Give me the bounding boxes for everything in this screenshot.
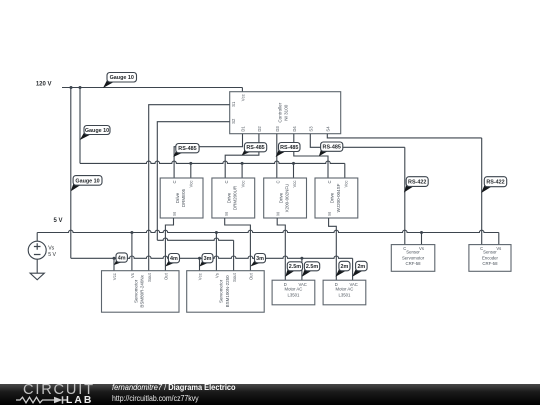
wire drive4 M to motor2 D — [329, 218, 337, 280]
svg-text:Gauge 10: Gauge 10 — [75, 178, 99, 184]
svg-text:Out: Out — [249, 272, 254, 280]
svg-text:M: M — [276, 212, 281, 216]
svg-text:Vs: Vs — [496, 246, 501, 251]
wire B gauge feeder — [79, 88, 81, 164]
svg-text:RS-422: RS-422 — [486, 180, 504, 186]
svg-text:Vcc: Vcc — [292, 181, 297, 188]
svg-text:S4: S4 — [326, 126, 331, 132]
svg-text:Encoder: Encoder — [482, 255, 499, 260]
svg-text:S3: S3 — [309, 126, 314, 132]
flag Gauge 10 #1 — [103, 73, 137, 89]
motor servomotor M2 BSM100N-2250 — [187, 271, 265, 313]
flag RS-485 #2 — [242, 143, 267, 156]
voltage source V1 Vs 5V — [28, 241, 56, 259]
flag 3m #1 — [200, 254, 214, 267]
svg-text:Sout: Sout — [147, 272, 152, 281]
flag RS-485 #1 — [173, 144, 199, 158]
wire S1 — [149, 105, 230, 271]
flag 2.5m #2 — [302, 262, 320, 277]
svg-text:Vcc: Vcc — [343, 181, 348, 188]
svg-text:Drive: Drive — [278, 192, 283, 203]
svg-text:RS-485: RS-485 — [323, 145, 341, 151]
wire D1 — [174, 134, 242, 178]
svg-text:X200-002NFU: X200-002NFU — [285, 184, 290, 213]
svg-text:4m: 4m — [170, 256, 178, 262]
svg-text:L3501: L3501 — [338, 292, 351, 297]
wire controller Vcc stub — [241, 88, 243, 92]
wire encoder Vs stub — [498, 233, 500, 245]
wire drive2 Vcc stub — [241, 163, 243, 178]
wire drive1 M to Out1 — [165, 218, 173, 271]
svg-text:CRF-58: CRF-58 — [406, 261, 422, 266]
wire D4 — [294, 134, 328, 178]
wire D2 — [225, 134, 259, 178]
svg-text:CRF-58: CRF-58 — [482, 261, 498, 266]
svg-text:M: M — [327, 212, 332, 216]
svg-text:Vs: Vs — [130, 273, 135, 278]
wire S2 upper — [157, 122, 229, 241]
wire D3 — [276, 134, 278, 178]
wire servo2 Vs stub — [215, 233, 217, 271]
svg-text:Servomotor: Servomotor — [402, 255, 425, 260]
node servo2 Vs junction — [215, 231, 218, 234]
svg-text:D3: D3 — [275, 126, 280, 132]
svg-text:BSM80R-240Nx: BSM80R-240Nx — [140, 274, 145, 307]
svg-text:RS-485: RS-485 — [178, 146, 196, 152]
wire servo Vcc bus — [71, 256, 353, 258]
svg-text:Motor AC: Motor AC — [284, 286, 302, 291]
wire 5V bus — [37, 230, 499, 232]
flag RS-485 #4 — [319, 142, 343, 156]
wire drive Vcc rail — [80, 161, 345, 163]
flag 2m #2 — [352, 261, 367, 277]
motor AC M4 L3501 — [323, 280, 366, 305]
svg-text:NI 3100: NI 3100 — [284, 104, 289, 121]
svg-text:C: C — [276, 181, 281, 184]
svg-text:WJ200-004SF: WJ200-004SF — [336, 183, 341, 212]
svg-text:Sout: Sout — [232, 272, 237, 281]
node drive1 Vcc junction — [189, 162, 192, 165]
svg-text:C: C — [172, 181, 177, 184]
flag RS-422 #1 — [404, 177, 428, 193]
flag Gauge 10 #2 — [80, 126, 110, 141]
svg-text:RS-485: RS-485 — [246, 145, 264, 151]
svg-text:D4: D4 — [292, 126, 297, 132]
svg-text:2.5m: 2.5m — [306, 264, 318, 270]
wire S3 drop — [404, 147, 406, 244]
wire drive3 M to motor1 D — [277, 218, 285, 280]
svg-text:Vcc: Vcc — [198, 273, 203, 280]
transistor drive U4 X200-002NFU — [264, 178, 307, 218]
sensor U6 Servomotor CRF-58 — [391, 245, 435, 272]
svg-text:Sensor: Sensor — [483, 250, 497, 255]
svg-text:L3501: L3501 — [287, 292, 300, 297]
flag 2m #1 — [336, 261, 351, 277]
svg-text:Drive: Drive — [175, 192, 180, 203]
svg-text:D1: D1 — [241, 126, 246, 132]
transistor drive U5 WJ200-004SF — [315, 178, 358, 218]
svg-text:M: M — [172, 212, 177, 216]
flag 4m #1 — [114, 253, 127, 265]
flag 2.5m #1 — [285, 262, 302, 277]
svg-text:D2: D2 — [257, 126, 262, 132]
wire motor2 VAC stub — [352, 258, 354, 280]
svg-text:Servomotor: Servomotor — [219, 279, 224, 303]
svg-text:5 V: 5 V — [53, 218, 62, 224]
svg-text:2.5m: 2.5m — [289, 264, 301, 270]
svg-text:Gauge 10: Gauge 10 — [85, 128, 109, 134]
svg-text:Vcc: Vcc — [189, 181, 194, 188]
motor servomotor M1 BSM80R-240Nx — [102, 271, 180, 313]
svg-text:DRME05: DRME05 — [181, 188, 186, 207]
svg-text:DRM200UR: DRM200UR — [233, 185, 238, 210]
svg-text:BSM100N-2250: BSM100N-2250 — [225, 275, 230, 308]
svg-text:Vcc: Vcc — [240, 181, 245, 188]
node junction on 120V rail B — [79, 86, 82, 89]
svg-text:Servomotor: Servomotor — [133, 279, 138, 303]
svg-text:Vs: Vs — [48, 246, 54, 252]
flag 4m #2 — [165, 254, 179, 267]
svg-text:M: M — [224, 212, 229, 216]
sensor U7 Encoder CRF-58 — [469, 245, 511, 272]
wire S4 — [327, 134, 481, 138]
svg-text:3m: 3m — [256, 256, 264, 262]
svg-text:Out: Out — [164, 272, 169, 280]
svg-text:RS-485: RS-485 — [280, 145, 298, 151]
svg-text:5 V: 5 V — [48, 252, 56, 258]
wire drive4 Vcc stub — [344, 163, 346, 178]
svg-text:Vs: Vs — [215, 273, 220, 278]
svg-text:120 V: 120 V — [36, 82, 52, 88]
flag 3m #2 — [250, 254, 265, 267]
wire drive1 Vcc stub — [190, 163, 192, 178]
flag RS-422 #2 — [481, 177, 506, 193]
svg-text:S2: S2 — [231, 118, 236, 124]
svg-text:Drive: Drive — [227, 192, 232, 203]
svg-text:S1: S1 — [231, 101, 236, 107]
svg-text:4m: 4m — [118, 255, 126, 261]
svg-text:Controller: Controller — [278, 102, 283, 122]
wire drive3 Vcc stub — [293, 163, 295, 178]
svg-text:2m: 2m — [357, 264, 365, 270]
svg-text:Drive: Drive — [330, 192, 335, 203]
wire A gauge feeder — [70, 88, 72, 259]
node motor1 VAC junction — [300, 257, 303, 260]
svg-text:Vcc: Vcc — [112, 273, 117, 280]
wire servo2 Vcc stub — [199, 258, 201, 270]
flag Gauge 10 #3 — [71, 176, 102, 192]
net label 5V — [53, 218, 62, 224]
transistor drive U3 DRM200UR — [212, 178, 255, 218]
node servo2 Vcc junction — [198, 257, 201, 260]
node sensor1 Vs junction — [420, 231, 423, 234]
transistor drive U2 DRME05 — [160, 178, 203, 218]
ground — [30, 273, 44, 280]
motor AC M3 L3501 — [272, 280, 315, 305]
wire motor1 VAC stub — [301, 258, 303, 280]
wire drive2 M to Out2 — [225, 218, 251, 271]
node junction on 120V rail A — [70, 86, 73, 89]
wire 120V rail — [62, 87, 242, 89]
svg-text:Gauge 10: Gauge 10 — [110, 75, 134, 81]
svg-text:Motor AC: Motor AC — [335, 286, 353, 291]
svg-text:C: C — [327, 181, 332, 184]
node servo1 Vcc junction — [113, 257, 116, 260]
svg-text:Sensor: Sensor — [406, 250, 420, 255]
wire S2 lower — [157, 238, 233, 240]
net label 120V — [36, 82, 52, 88]
svg-text:RS-422: RS-422 — [408, 179, 426, 185]
CircuitLab logo — [23, 382, 95, 398]
svg-text:2m: 2m — [341, 264, 349, 270]
op-amp controller U1 NI 3100 — [230, 92, 341, 134]
node drive2 Vcc junction — [241, 162, 244, 165]
wire servo1 Vcc stub — [113, 258, 115, 270]
wire sensor1 Vs stub — [421, 233, 423, 245]
wire servo1 Vs stub — [131, 233, 133, 271]
wire S3 — [310, 134, 405, 148]
wire S4 drop — [481, 138, 483, 245]
wire source bottom — [36, 259, 38, 273]
flag RS-485 #3 — [276, 143, 300, 158]
wire source top — [36, 233, 38, 242]
svg-text:3m: 3m — [204, 256, 212, 262]
svg-text:Vcc: Vcc — [241, 94, 246, 101]
wire S2 to Sout2 — [233, 240, 235, 270]
node drive3 Vcc junction — [292, 162, 295, 165]
svg-text:C: C — [224, 181, 229, 184]
node servo1 Vs junction — [130, 231, 133, 234]
